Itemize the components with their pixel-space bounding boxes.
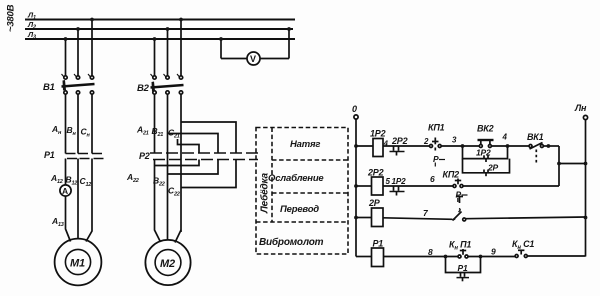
node dot row1 c: [547, 144, 551, 148]
svg-text:Р1: Р1: [458, 263, 468, 273]
svg-text:Р1: Р1: [44, 150, 55, 160]
svg-text:А: А: [62, 186, 68, 196]
wire P2 loop C top: [181, 122, 236, 153]
wire P2 loop B top: [168, 134, 219, 153]
thermal element P2-1: [150, 153, 165, 160]
bus line L1: [25, 19, 295, 21]
row2 wire right: [463, 185, 559, 187]
svg-text:Кн С1: Кн С1: [512, 239, 534, 251]
svg-text:А21: А21: [136, 125, 149, 137]
motor M1: [55, 239, 102, 286]
limit switch VK2: [478, 140, 494, 148]
thermal element P2-7: [246, 153, 258, 160]
row1 wire: [383, 145, 430, 147]
svg-text:КП2: КП2: [443, 170, 460, 180]
wire to Ln: [559, 163, 586, 165]
thermal element P2-5: [214, 153, 229, 160]
node dot voltmeter on L2: [287, 27, 291, 31]
svg-text:~380В: ~380В: [6, 4, 17, 32]
bypass loop contact 1P2: [463, 146, 508, 162]
row3 wire left: [356, 217, 372, 219]
svg-text:Р: Р: [456, 190, 462, 200]
row1 wire right: [543, 145, 559, 147]
contact 2P2: [390, 146, 405, 156]
row4 wire right: [527, 255, 585, 257]
node dot B1-C on L1: [90, 18, 94, 22]
svg-text:Натяг: Натяг: [290, 139, 320, 150]
wire voltmeter left drop: [220, 39, 222, 59]
switch B1: [62, 74, 95, 94]
wire P2 loop step: [178, 139, 200, 153]
wire M1 phase C upper: [91, 95, 93, 154]
wire B2 phase A drop: [154, 39, 156, 76]
wire B1 phase A drop: [65, 39, 67, 76]
svg-text:Сн: Сн: [81, 127, 91, 139]
svg-text:V: V: [250, 54, 256, 64]
wire M2 phase C vertical: [180, 95, 182, 233]
row1 wire: [441, 145, 479, 147]
node dot row1 b: [506, 144, 510, 148]
svg-text:Вн: Вн: [67, 125, 77, 137]
bus Ln vertical: [585, 120, 587, 257]
wire M1 phase A mid: [65, 159, 67, 186]
contact D: [453, 197, 466, 222]
wire M2 phase A through: [154, 95, 156, 154]
svg-text:2Р2: 2Р2: [367, 168, 384, 178]
wire M2 phase A lower: [155, 160, 161, 243]
row1 wire left: [356, 145, 373, 147]
motor M2: [145, 240, 190, 285]
node dot B1-A on L3: [64, 37, 68, 41]
svg-text:А22: А22: [126, 172, 139, 184]
thermal element P2-2: [166, 153, 181, 160]
node dot B2-B on L2: [166, 27, 170, 31]
svg-text:ВК1: ВК1: [527, 132, 544, 142]
svg-text:В2: В2: [137, 83, 150, 94]
wire M1 phase B upper: [77, 95, 79, 154]
switch B2: [151, 74, 184, 94]
svg-text:Лн: Лн: [574, 103, 587, 113]
coil P1: [372, 248, 384, 267]
svg-text:ВК2: ВК2: [477, 124, 494, 134]
bus line L2: [25, 28, 293, 30]
contact VK1: [529, 143, 543, 164]
wire M1 phase A lower: [66, 196, 71, 242]
holding loop P1: [446, 257, 481, 282]
svg-text:1Р2: 1Р2: [476, 148, 491, 158]
svg-text:Ослабление: Ослабление: [268, 173, 324, 184]
wire B2 phase B drop: [167, 29, 169, 76]
wire voltmeter right rise: [288, 29, 290, 59]
pushbutton KP1: [430, 138, 442, 151]
svg-text:М1: М1: [70, 258, 85, 270]
svg-text:4: 4: [502, 133, 508, 142]
svg-text:2: 2: [423, 137, 429, 146]
wire voltmeter bottom left: [221, 58, 247, 60]
node dot voltmeter on L3: [219, 37, 223, 41]
thermal element P1 phase B: [78, 154, 90, 159]
svg-text:А13: А13: [51, 216, 64, 228]
wire M2 phase C lower: [175, 230, 181, 243]
pushbutton KnP1: [458, 249, 468, 258]
coil 2P: [372, 208, 384, 227]
wire M1 phase C lower: [86, 159, 92, 242]
wire P2 return C: [181, 160, 236, 188]
row3 wire: [383, 218, 453, 220]
svg-text:2Р: 2Р: [368, 198, 381, 208]
thermal element P2-3: [182, 153, 197, 160]
row4 wire: [384, 256, 459, 258]
node dot row1 a: [461, 144, 465, 148]
wire M2 phase B vertical: [167, 95, 169, 241]
svg-text:6: 6: [430, 174, 435, 184]
wire M1 phase B lower: [77, 159, 79, 240]
thermal element P2-6: [230, 153, 245, 160]
svg-text:М2: М2: [160, 258, 175, 270]
svg-text:В1: В1: [43, 82, 55, 93]
pushbutton KnC1 stop: [515, 250, 527, 258]
svg-text:1Р2: 1Р2: [392, 177, 407, 186]
svg-text:В21: В21: [152, 126, 164, 138]
row1 wire: [491, 145, 529, 147]
row4 wire left: [356, 256, 372, 258]
node dot B1-B on L2: [76, 27, 80, 31]
svg-text:Р1: Р1: [373, 239, 384, 249]
wire B1 phase B drop: [77, 29, 79, 76]
wire P2 return A: [155, 160, 200, 166]
bypass loop contact 2P: [463, 159, 510, 177]
row3 wire right: [466, 217, 586, 219]
node dots bus Ln: [584, 162, 588, 166]
wire P2 return B: [168, 160, 219, 175]
svg-text:Вибромолот: Вибромолот: [259, 236, 324, 248]
svg-text:Перевод: Перевод: [280, 204, 319, 215]
row2 wire left: [356, 185, 372, 187]
ammeter A: [60, 185, 71, 196]
svg-text:Ан: Ан: [51, 124, 62, 136]
svg-text:А12: А12: [50, 173, 63, 185]
dashed legend box: [256, 128, 348, 255]
wire B1 phase C drop: [91, 20, 93, 77]
node dot riser: [557, 162, 561, 166]
node dot row4 b: [479, 255, 483, 259]
svg-text:С12: С12: [80, 176, 92, 188]
bus 0 vertical: [355, 119, 357, 257]
wire M1 phase A upper: [65, 95, 67, 154]
pushbutton KP2: [453, 179, 463, 188]
svg-text:7: 7: [423, 208, 429, 218]
row4 wire mid: [468, 256, 515, 258]
svg-text:КП1: КП1: [428, 123, 445, 133]
svg-text:Л2: Л2: [27, 20, 36, 31]
bus line L3: [25, 38, 295, 40]
wire row1-row2 riser: [558, 146, 560, 186]
coil 1P2: [373, 139, 383, 157]
thermal element P1 phase A: [66, 154, 78, 159]
svg-text:1Р2: 1Р2: [370, 129, 386, 139]
svg-text:8: 8: [428, 247, 433, 257]
wire voltmeter bottom right: [260, 58, 289, 60]
svg-text:0: 0: [352, 104, 357, 114]
node dot B2-C on L1: [179, 18, 183, 22]
contact 1P2 row2: [390, 186, 405, 196]
voltmeter V: [247, 52, 260, 65]
node dots bus 0: [354, 144, 358, 148]
svg-text:2Р2: 2Р2: [391, 136, 408, 146]
svg-text:5: 5: [386, 177, 391, 186]
thermal element P1 phase C: [92, 154, 104, 159]
svg-text:9: 9: [491, 247, 496, 257]
node dot row4 a: [444, 255, 448, 259]
svg-text:Р: Р: [433, 154, 439, 164]
row2 wire: [383, 185, 453, 187]
svg-text:Р2: Р2: [139, 151, 150, 161]
svg-text:Л3: Л3: [27, 30, 36, 41]
thermal element P2-4: [198, 153, 213, 160]
svg-text:3: 3: [452, 136, 457, 145]
coil 2P2: [372, 177, 384, 195]
node dot B2-A on L3: [153, 37, 157, 41]
svg-text:С22: С22: [168, 186, 180, 198]
wire B2 phase C drop: [180, 20, 182, 77]
svg-text:2Р: 2Р: [487, 163, 499, 173]
